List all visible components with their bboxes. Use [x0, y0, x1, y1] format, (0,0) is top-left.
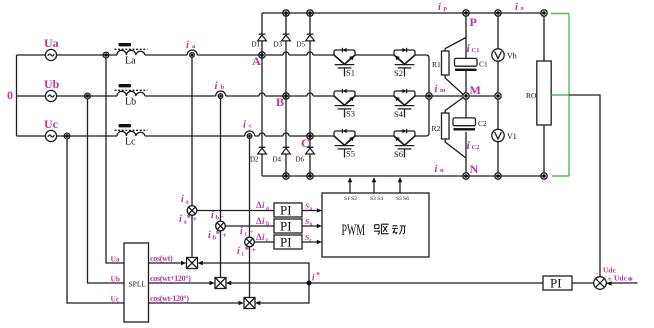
node bottom bus B col	[283, 173, 289, 179]
wire PI dc to istar	[311, 282, 543, 284]
svg-text:0: 0	[7, 88, 13, 102]
node top meter col	[495, 10, 501, 16]
block PWM drive	[322, 193, 429, 257]
label ib* plus	[208, 229, 227, 242]
summer Udc	[594, 277, 607, 290]
node bottom RO col	[541, 173, 547, 179]
node C	[301, 133, 313, 150]
wire ib sense down	[220, 98, 222, 221]
wire Ua sense to SPLL	[106, 58, 124, 263]
node A	[252, 52, 265, 68]
svg-text:c: c	[266, 238, 269, 244]
wire PI b to PWM Sb	[302, 217, 322, 228]
svg-text:SPLL: SPLL	[129, 280, 147, 289]
svg-text:La: La	[125, 56, 136, 67]
svg-text:Uc: Uc	[44, 117, 59, 131]
wire PI c to PWM Sc	[302, 233, 322, 244]
wire summer Udc to PI dc	[572, 282, 594, 284]
wire Ub sense to SPLL	[88, 99, 125, 283]
svg-text:D4: D4	[273, 156, 282, 164]
node istar	[307, 271, 321, 286]
svg-text:R1: R1	[432, 60, 441, 69]
svg-text:D3: D3	[274, 41, 283, 49]
svg-text:i: i	[179, 214, 182, 225]
inductor Lc	[115, 124, 148, 148]
svg-text:R2: R2	[432, 124, 441, 133]
svg-text:i: i	[515, 2, 518, 13]
svg-text:S5: S5	[346, 149, 355, 159]
svg-text:PI: PI	[280, 219, 292, 234]
svg-text:+: +	[252, 246, 257, 255]
node top bus B col	[283, 10, 289, 16]
svg-text:cos(wt-120°): cos(wt-120°)	[150, 294, 189, 303]
svg-text:-: -	[221, 212, 224, 221]
source Uc	[17, 117, 59, 142]
label in	[435, 164, 445, 175]
arrowhead into Udc summer	[606, 281, 611, 285]
svg-text:D2: D2	[250, 156, 259, 164]
node tap c	[64, 133, 70, 139]
wire P to C1	[465, 16, 467, 58]
diode D3	[274, 34, 291, 48]
transistor S5	[334, 129, 355, 159]
label ic minus	[240, 226, 254, 238]
wire summer c to PI c	[254, 241, 274, 243]
label delta ib	[256, 216, 270, 228]
wire summer a to PI a	[196, 210, 274, 212]
wire green mid stub	[552, 94, 570, 96]
wire meter column	[497, 16, 499, 173]
node meter col M row	[495, 93, 501, 99]
svg-text:*: *	[245, 245, 250, 255]
svg-text:A: A	[252, 54, 261, 68]
voltmeter Vh	[492, 49, 517, 61]
wire istar up branch to multiplier a	[198, 261, 310, 281]
wire green bottom stub	[552, 175, 569, 177]
diode D1	[252, 34, 267, 48]
svg-text:S1: S1	[346, 68, 355, 78]
wire multiplier a up to summer a	[191, 215, 193, 258]
svg-text:p: p	[444, 5, 448, 12]
svg-text:C2: C2	[478, 119, 487, 128]
svg-text:i: i	[243, 120, 246, 131]
capacitor C1	[455, 41, 489, 71]
block SPLL	[124, 243, 149, 322]
transistor S2	[394, 48, 415, 77]
wire istar down branch to multiplier c	[255, 286, 309, 306]
wire top bus	[262, 12, 544, 14]
svg-text:i: i	[181, 194, 184, 205]
svg-text:S4: S4	[394, 109, 404, 119]
svg-text:C: C	[301, 136, 310, 150]
node bridge-M junction	[426, 93, 432, 99]
diode D4	[273, 147, 291, 163]
svg-text:c: c	[245, 231, 248, 238]
svg-text:Uc: Uc	[111, 295, 120, 304]
svg-text:V1: V1	[507, 132, 517, 141]
wire M row to meter col	[469, 95, 495, 97]
node meter col bottom	[495, 173, 501, 179]
svg-text:S5 S6: S5 S6	[396, 196, 409, 202]
gate arrow 3	[398, 177, 403, 193]
wire summer b to PI b	[225, 225, 274, 227]
transistor S4	[394, 89, 415, 118]
svg-text:Lc: Lc	[125, 137, 136, 148]
svg-text:S3: S3	[346, 109, 355, 119]
hop b-row over col C	[307, 93, 313, 96]
svg-text:o: o	[521, 5, 524, 12]
diode D2	[250, 147, 266, 163]
node tap a	[103, 52, 109, 58]
node bottom bus C col	[307, 173, 313, 179]
svg-text:n: n	[440, 167, 444, 174]
wire col B	[285, 13, 287, 176]
label io	[515, 2, 524, 13]
wire S3-S4	[355, 95, 394, 97]
svg-text:b: b	[310, 223, 313, 228]
wire C1 to M	[465, 71, 467, 93]
svg-text:*: *	[187, 213, 192, 223]
multiplier a	[187, 258, 198, 269]
svg-text:i: i	[237, 246, 240, 257]
resistor RO	[526, 16, 551, 173]
block PI c	[274, 235, 302, 250]
svg-text:-: -	[251, 227, 254, 236]
node tap b	[85, 93, 91, 99]
svg-text:-: -	[596, 269, 599, 278]
svg-text:Udc: Udc	[614, 274, 628, 283]
svg-text:PI: PI	[280, 203, 292, 218]
node P	[463, 10, 477, 29]
wire phase a row	[57, 54, 334, 56]
svg-text:a: a	[266, 206, 269, 212]
svg-text:Ub: Ub	[44, 77, 60, 91]
label ia minus	[181, 194, 194, 206]
resistor R2	[432, 98, 467, 159]
svg-text:D6: D6	[296, 156, 305, 164]
node top RO col	[541, 10, 547, 16]
svg-text:N: N	[470, 162, 479, 176]
current sensor ib	[215, 81, 226, 98]
hop c-row over col B	[283, 133, 289, 136]
source Ub	[17, 77, 60, 102]
transistor S1	[334, 48, 355, 78]
gate arrow 1	[348, 177, 353, 193]
wire ia sense down	[191, 57, 193, 206]
svg-text:i: i	[211, 210, 214, 221]
transistor S3	[334, 89, 355, 119]
node top bus C col	[307, 10, 313, 16]
label Udc minus	[596, 266, 617, 279]
svg-text:c: c	[249, 122, 252, 129]
svg-text:PI: PI	[280, 235, 292, 250]
multiplier b	[215, 278, 226, 289]
svg-text:B: B	[276, 95, 284, 109]
svg-text:S1 S2: S1 S2	[344, 196, 357, 202]
hop c-row over col A	[259, 133, 265, 136]
svg-text:b: b	[221, 84, 225, 91]
summer ic	[245, 237, 255, 247]
svg-text:b: b	[216, 215, 220, 222]
wire multiplier b up to summer b	[220, 230, 222, 277]
diode D6	[296, 147, 315, 163]
label ia* plus	[179, 213, 198, 226]
svg-text:i: i	[435, 164, 438, 175]
wire multiplier c up to summer c	[249, 246, 251, 297]
label delta ic	[256, 232, 269, 244]
wire Udc sense	[569, 95, 600, 277]
svg-text:+: +	[222, 231, 227, 240]
svg-text:PI: PI	[550, 276, 562, 291]
svg-text:Vh: Vh	[507, 52, 517, 61]
svg-text:*: *	[216, 229, 221, 239]
wire phase c row	[57, 135, 334, 137]
summer ia	[187, 206, 197, 216]
label delta ia	[256, 200, 269, 212]
wire S4 out to M row	[415, 95, 462, 97]
svg-text:S6: S6	[394, 149, 403, 159]
svg-text:Ua: Ua	[111, 255, 120, 264]
inductor Lb	[115, 84, 148, 108]
svg-text:+: +	[193, 215, 198, 224]
svg-text:i: i	[215, 81, 218, 92]
svg-text:M: M	[470, 83, 481, 97]
wire phase b row	[57, 95, 334, 97]
wire col A	[261, 13, 263, 176]
svg-text:cos(wt+120°): cos(wt+120°)	[150, 274, 191, 283]
wire ic sense down	[249, 138, 251, 237]
wire M to C2	[465, 99, 467, 118]
label PWM chinese 动	[392, 226, 406, 235]
svg-text:C1: C1	[479, 60, 488, 69]
svg-text:PWM: PWM	[342, 222, 366, 239]
label ib minus	[211, 210, 224, 222]
wire cos wt out	[149, 254, 187, 265]
node N	[463, 162, 479, 179]
source Ua	[17, 36, 59, 61]
wire S2 out to M column	[415, 55, 429, 93]
svg-text:i: i	[208, 230, 211, 241]
wire PI a to PWM Sa	[302, 202, 322, 213]
hop a-row over col C	[307, 52, 313, 55]
svg-text:C1: C1	[472, 47, 480, 54]
voltmeter V1	[492, 129, 517, 141]
wire Udc* stub	[606, 282, 637, 284]
svg-text:RO: RO	[526, 91, 537, 100]
wire Uc sense to SPLL	[67, 139, 124, 303]
wire green top stub	[551, 13, 569, 15]
wire S5-S6	[355, 135, 394, 137]
wire C2 to N	[465, 132, 467, 173]
block PI b	[274, 219, 302, 234]
svg-text:Lb: Lb	[125, 97, 136, 108]
svg-text:S3 S4: S3 S4	[370, 196, 383, 202]
label ic* plus	[237, 245, 257, 258]
multiplier c	[244, 298, 255, 309]
label PWM chinese 驱	[374, 224, 389, 234]
wire left rail	[16, 55, 18, 136]
svg-text:cos(wt): cos(wt)	[150, 254, 173, 263]
block PI a	[274, 203, 302, 218]
summer ib	[216, 221, 226, 231]
wire green vertical	[568, 14, 570, 177]
svg-text:m: m	[440, 87, 446, 94]
resistor R1	[432, 38, 466, 95]
svg-text:i: i	[240, 226, 243, 237]
svg-text:P: P	[470, 15, 477, 29]
svg-text:-: -	[191, 196, 194, 205]
wire bottom bus	[262, 175, 544, 177]
wire col C	[309, 13, 311, 176]
wire istar to multiplier b	[226, 281, 307, 285]
wire cos wt+120 out	[149, 274, 215, 285]
svg-text:*: *	[628, 275, 634, 287]
wire S1-S2	[355, 54, 394, 56]
svg-text:Ua: Ua	[44, 36, 59, 50]
svg-text:i: i	[186, 40, 189, 51]
hop a-row over col B	[283, 52, 289, 55]
svg-text:i: i	[435, 84, 438, 95]
svg-text:*: *	[316, 271, 320, 280]
gate arrow 2	[372, 177, 377, 193]
svg-text:C2: C2	[472, 144, 480, 151]
wire S6 out up to M column	[415, 99, 429, 136]
transistor S6	[394, 129, 415, 158]
block PI dc	[543, 276, 572, 291]
inductor La	[115, 43, 148, 67]
svg-text:i: i	[438, 2, 441, 13]
hop b-row over col A	[259, 93, 265, 96]
current sensor ic	[243, 120, 255, 139]
node M	[463, 83, 481, 99]
diode D5	[297, 34, 315, 48]
svg-text:D1: D1	[252, 41, 261, 49]
current sensor ia	[186, 40, 197, 57]
label im	[435, 84, 447, 95]
label ip	[438, 2, 448, 13]
node B	[276, 93, 289, 109]
svg-text:Ub: Ub	[111, 275, 121, 284]
svg-text:S2: S2	[394, 68, 403, 78]
label Udc* plus	[608, 274, 634, 288]
capacitor C2	[453, 118, 487, 152]
wire cos wt-120 out	[149, 294, 244, 305]
svg-text:D5: D5	[297, 41, 306, 49]
